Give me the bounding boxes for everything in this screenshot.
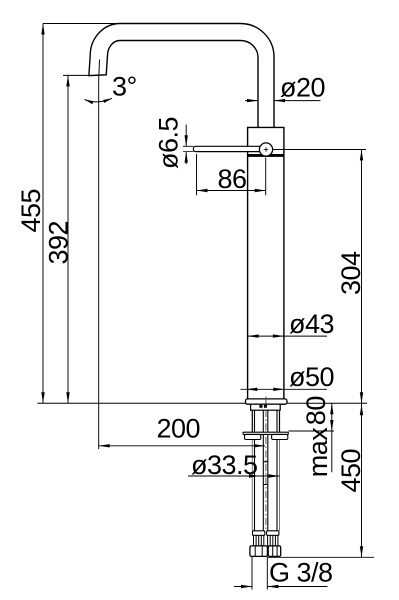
arrow G38 right (267, 585, 278, 588)
arrow o50 right (273, 388, 284, 391)
leader line o33.5 (188, 475, 280, 477)
extension line outlet bottom (63, 74, 89, 76)
arrow 3deg left (85, 100, 94, 105)
svg-text:80: 80 (301, 396, 331, 425)
extension line pivot axis down (265, 158, 267, 196)
3 degree arc (85, 98, 113, 102)
handle lever (193, 146, 262, 151)
hose outer ghost walls (252, 434, 279, 530)
svg-text:ø50: ø50 (289, 362, 334, 392)
spout tube inner outline (107, 41, 258, 128)
svg-text:ø20: ø20 (280, 73, 325, 103)
arrow 392 top (66, 75, 69, 86)
extension line tube top (43, 23, 120, 25)
mounting nut left half (245, 434, 261, 439)
arrow 200 left (99, 444, 110, 447)
dimension line max 80 (331, 403, 333, 472)
arrow o43 left (248, 334, 259, 337)
svg-text:455: 455 (16, 189, 46, 233)
pivot center mark (264, 147, 268, 151)
arrow max80 bottom (330, 420, 333, 431)
svg-text:392: 392 (44, 221, 74, 265)
arrow 86 right (255, 189, 266, 192)
cartridge body (248, 127, 284, 157)
arrow o20 right (274, 99, 285, 102)
arrow 450 top (360, 404, 363, 415)
svg-text:ø33.5: ø33.5 (191, 450, 258, 480)
outlet centerline dash (98, 60, 101, 76)
arrow o6.5 bottom (185, 152, 188, 163)
extension line washer top right (288, 430, 334, 432)
spout tube outer outline (90, 24, 274, 128)
dimension line o50 (241, 388, 328, 390)
hose tops in spacer (259, 405, 262, 408)
arrow 455 top (41, 24, 44, 35)
right hose hex nut (268, 546, 281, 557)
arrow o6.5 top (185, 135, 188, 146)
arrow o50 left (246, 388, 257, 391)
dimension line o43 (248, 335, 327, 337)
hose walls (255, 411, 278, 531)
dimension line 200 (99, 445, 265, 447)
extension lines G3/8 (252, 557, 267, 590)
extension line lever end (196, 154, 198, 195)
extension line pivot to right (273, 149, 366, 151)
column sides (248, 157, 284, 399)
counter top line (37, 402, 367, 404)
handle pivot circle (259, 143, 272, 156)
base spacer (251, 404, 281, 410)
svg-text:450: 450 (336, 449, 366, 493)
svg-text:200: 200 (157, 413, 201, 443)
right hose crimp (268, 535, 278, 546)
spout outlet stub (89, 56, 108, 76)
svg-text:ø6.5: ø6.5 (154, 117, 184, 169)
extension lines o6.5 (183, 146, 194, 151)
svg-text:G 3/8: G 3/8 (269, 558, 333, 588)
arrow 392 bottom (66, 392, 69, 403)
dimension line 304 and 450 (361, 150, 363, 558)
body/column joint bar (248, 154, 284, 157)
arrow 3deg right (103, 98, 112, 103)
dimension line 392 (67, 75, 69, 403)
extension line hose bottom right (267, 556, 374, 558)
svg-text:max: max (303, 427, 333, 478)
mounting nut right half (272, 434, 288, 439)
arrow o33.5 second (269, 474, 280, 477)
svg-text:304: 304 (336, 251, 366, 295)
dimension line 455 (42, 24, 44, 404)
svg-text:3°: 3° (112, 72, 137, 102)
left hose collar (253, 531, 265, 536)
left hose crimp (254, 535, 264, 546)
dimension line 86 (197, 190, 266, 192)
right hose collar (267, 531, 279, 536)
arrow G38 left (241, 585, 252, 588)
left hose hex nut (250, 546, 268, 557)
dimension line o20 (245, 100, 321, 102)
svg-text:86: 86 (218, 164, 247, 194)
dimension line G3/8 (234, 586, 328, 588)
arrow 86 left (197, 189, 208, 192)
base flange (246, 399, 288, 404)
arrow 304 bottom (360, 392, 363, 403)
arrow o33.5 first (249, 474, 260, 477)
arrow 455 bottom (41, 392, 44, 403)
axis centerline (265, 397, 267, 532)
centerline ticks (263, 462, 267, 485)
arrow 450 bottom (360, 546, 363, 557)
arrow 304 top (360, 150, 363, 161)
arrow o20 left (247, 99, 258, 102)
arrow max80 top (330, 403, 333, 414)
outlet extension centerline (98, 75, 100, 449)
svg-text:ø43: ø43 (289, 309, 334, 339)
mounting washer (243, 432, 288, 434)
arrow 200 right (254, 444, 265, 447)
threaded shank walls (252, 410, 279, 432)
arrow o43 right (273, 334, 284, 337)
dimension line o6.5 (185, 125, 187, 165)
